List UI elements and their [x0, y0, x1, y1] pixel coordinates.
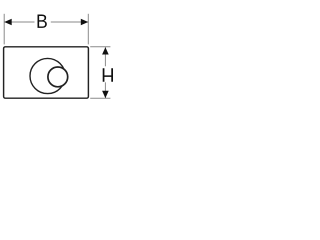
dimension line B right segment: [51, 21, 88, 23]
extension line right (B): [87, 14, 89, 45]
extension line bottom (H): [90, 97, 110, 99]
label B: [37, 14, 46, 27]
arrowhead H bottom: [102, 91, 109, 98]
arrowhead H top: [102, 47, 109, 54]
background: [0, 0, 120, 120]
extension line top (H): [90, 46, 110, 48]
arrowhead B right: [81, 19, 88, 26]
plate rectangle: [4, 47, 89, 98]
small circle: [48, 67, 68, 87]
dimension line H top segment: [104, 47, 106, 66]
arrowhead B left: [4, 19, 11, 26]
dimension line B left segment: [4, 21, 34, 23]
dimension line H bottom segment: [104, 82, 106, 98]
label H: [103, 68, 113, 81]
extension line left (B): [3, 14, 5, 45]
big circle: [30, 58, 65, 93]
